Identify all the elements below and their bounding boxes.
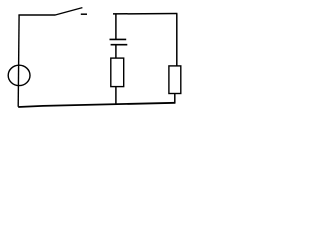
switch S1 fixed contact dash: [81, 13, 87, 15]
capacitor C1 bottom plate: [111, 44, 128, 46]
voltage source V1: [8, 65, 30, 85]
switch S1 blade: [55, 8, 82, 15]
resistor R1: [111, 58, 124, 87]
wire middle branch top vertical: [115, 13, 117, 39]
wire left vertical: [17, 15, 20, 107]
capacitor C1 top plate: [110, 38, 127, 40]
wire bottom horizontal: [18, 103, 175, 107]
wire top-right horizontal: [113, 13, 177, 15]
resistor R2: [169, 66, 181, 94]
wire right branch vertical: [176, 14, 178, 66]
wire resistor R2 bottom stub: [174, 94, 176, 104]
wire top-left horizontal: [18, 14, 55, 16]
wire resistor R1 bottom stub: [115, 87, 117, 105]
wire capacitor to resistor R1: [115, 45, 117, 58]
